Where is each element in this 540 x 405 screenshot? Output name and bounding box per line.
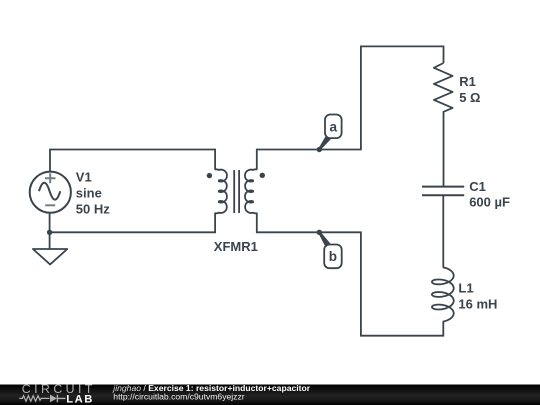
svg-text:b: b [329,249,337,264]
logo diode [50,395,57,403]
voltage source V1 circle [30,172,71,213]
wire bottom-left primary loop [50,213,216,233]
svg-text:C1: C1 [469,179,486,194]
capacitor C1 plates [422,187,464,196]
node a flag tail [319,137,331,151]
svg-text:http://circuitlab.com/c9utvm6y: http://circuitlab.com/c9utvm6yejzzr [113,392,244,402]
wire L1 bottom [257,213,444,336]
svg-text:16 mH: 16 mH [458,296,497,311]
inductor L1 coil [432,267,454,321]
wire top-left primary loop [50,150,215,172]
wire secondary top (node a) [257,46,444,169]
svg-text:a: a [329,120,337,135]
transformer left phase dot [207,173,212,178]
transformer core lines [234,170,239,213]
svg-text:L1: L1 [458,280,473,295]
svg-text:V1: V1 [76,170,92,185]
resistor R1 [434,63,453,186]
node b flag box [324,245,342,269]
svg-text:600 µF: 600 µF [469,194,510,209]
svg-text:R1: R1 [459,74,476,89]
logo schematic line: resistor zigzag [19,396,49,402]
footer bar [0,385,540,405]
V1 sine wave [39,183,60,200]
wire V1 bottom to ground [49,213,51,249]
svg-text:5 Ω: 5 Ω [459,90,480,105]
transformer right phase dot [260,173,265,178]
node a junction dot [317,147,322,152]
svg-text:LAB: LAB [66,394,94,405]
node b flag tail [319,232,330,247]
wire C1 to L1 [442,195,444,267]
svg-text:sine: sine [76,186,102,201]
transformer XFMR1 right winding [245,169,257,213]
ground [33,249,67,264]
node b junction dot [317,230,322,235]
svg-text:XFMR1: XFMR1 [214,239,258,254]
transformer XFMR1 left winding [215,169,227,213]
node a flag box [325,115,342,139]
svg-text:50 Hz: 50 Hz [76,202,110,217]
V1 plus sign [45,173,56,183]
node junction dot at V1 bottom [47,230,52,235]
V1 minus sign [45,204,55,206]
